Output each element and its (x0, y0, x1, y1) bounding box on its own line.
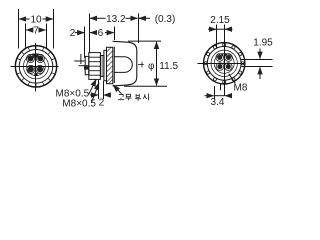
dim 10 arrows (19, 18, 30, 20)
knurl ring inner circle (19, 50, 53, 84)
svg-text:1.95: 1.95 (253, 38, 273, 49)
svg-text:13.2: 13.2 (106, 14, 126, 25)
2.15 ext lines (216, 25, 218, 49)
svg-text:2.15: 2.15 (210, 15, 230, 26)
washer mid line (101, 56, 103, 77)
socket recess circle (27, 57, 46, 76)
dim 7 arrows (26, 29, 31, 31)
M8 leader (229, 74, 235, 83)
svg-text:φ: φ (148, 61, 155, 72)
svg-text:M8: M8 (234, 83, 248, 94)
pin sockets (26, 54, 44, 73)
keyway stub line (220, 85, 222, 91)
svg-text:10: 10 (30, 15, 42, 26)
svg-text:2: 2 (70, 28, 76, 39)
phi dim line with arrows (156, 42, 158, 86)
phi 11.5 ext line top (128, 40, 161, 42)
bottom dim 2 arrows (90, 94, 98, 96)
1.95 ext lines (241, 59, 273, 61)
knurl ticks (16, 46, 57, 87)
pin sockets (216, 54, 232, 71)
thread step block (84, 66, 89, 69)
face circle (23, 54, 48, 79)
washer (100, 56, 104, 77)
dim 7 ext line left (25, 24, 27, 50)
svg-text:7: 7 (33, 26, 39, 37)
ext line 13.2 right (138, 14, 140, 44)
dim 2.15 line + arrows (208, 28, 216, 30)
tip end bar (80, 54, 82, 64)
1.95 arrows (259, 49, 261, 59)
ext line A (84, 27, 86, 58)
dim 7 ext line right (46, 24, 48, 50)
outer circle (204, 43, 245, 84)
dim 10 ext line left (18, 9, 20, 49)
svg-text:11.5: 11.5 (159, 61, 178, 72)
hatched collar (107, 47, 113, 83)
phi 11.5 ext line bottom (124, 85, 167, 87)
dim 3.4 line + arrows (205, 95, 214, 97)
svg-text:3.4: 3.4 (211, 97, 225, 108)
svg-text:2: 2 (99, 97, 105, 108)
nut knurl lines (89, 57, 101, 75)
dim 3.4 ext line (214, 86, 216, 100)
pins (27, 54, 43, 77)
bushing inner capsule (115, 57, 133, 73)
nut (89, 53, 101, 80)
crosshair horizontal (11, 66, 59, 68)
flange (104, 50, 107, 80)
rubber bushing label (Korean go-mu bu-si) (118, 94, 149, 101)
dim 2 arrow (75, 32, 85, 34)
ext line 6 right (114, 27, 116, 41)
ext line B (89, 14, 91, 54)
contact tip tube (74, 60, 84, 62)
inner ring 1 (207, 46, 241, 80)
body (rubber bushing) (113, 41, 137, 86)
svg-text:(0.3): (0.3) (155, 14, 176, 25)
leader 2 (92, 83, 100, 103)
dim (0.3) arrow (139, 17, 150, 19)
dim 6 arrows (90, 32, 96, 34)
inner ring 2 (211, 50, 237, 76)
inner ring 3 (214, 53, 234, 73)
middle view axis stub (138, 64, 144, 66)
dim 10 ext line right (53, 9, 55, 49)
svg-text:M8×0.5: M8×0.5 (62, 99, 96, 110)
rubber bushing label leader (113, 85, 121, 94)
knurl bumps (204, 43, 244, 83)
crosshair horizontal (198, 63, 246, 65)
leader 1 (89, 79, 96, 94)
svg-text:6: 6 (98, 28, 104, 39)
dim 13.2 arrows (90, 17, 106, 19)
outer circle (15, 46, 56, 87)
thread collar (85, 56, 89, 74)
pins (217, 54, 231, 70)
crosshair vertical (35, 43, 37, 91)
body front edge line (113, 47, 115, 83)
bottom dim 2 ext lines (98, 80, 100, 99)
tip mid line (79, 65, 90, 67)
crosshair vertical (224, 41, 226, 96)
